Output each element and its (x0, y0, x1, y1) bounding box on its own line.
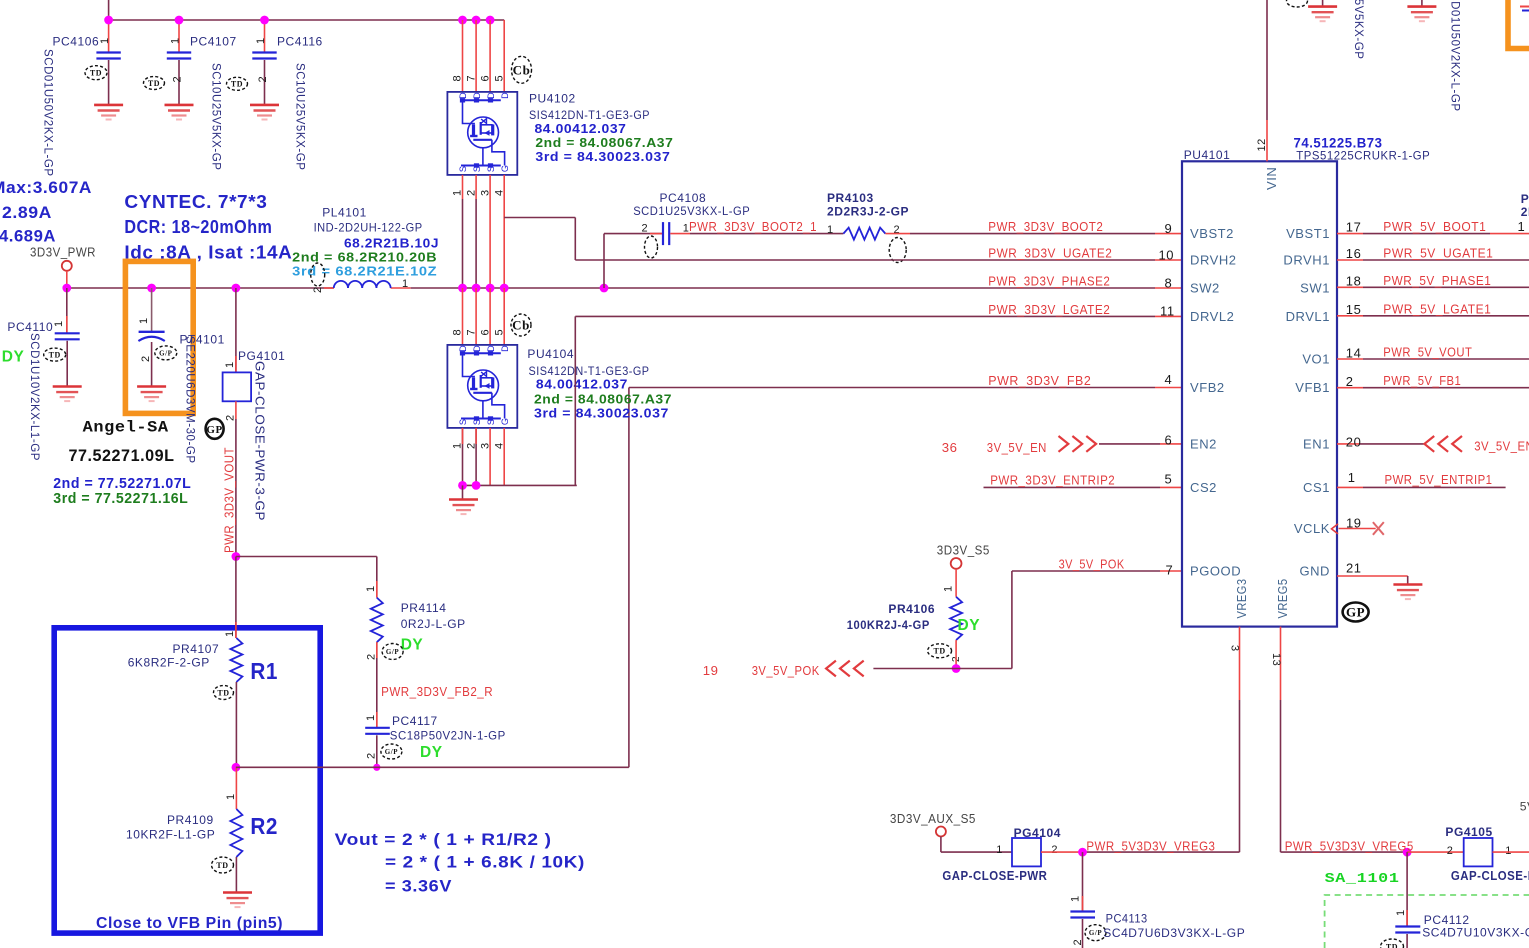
pin 10 (1159, 248, 1175, 263)
svg-text:1: 1 (225, 793, 237, 800)
stamp Cb PU4104 (511, 314, 531, 336)
label PC4108 part (633, 204, 750, 218)
svg-text:2: 2 (172, 76, 184, 83)
pin name DRVH1 (1283, 253, 1330, 268)
label GAP-CLOSE-PWR (942, 869, 1047, 883)
svg-text:DY: DY (401, 636, 424, 653)
wire ENTRIP2 (984, 486, 1183, 488)
svg-text:SC18P50V2JN-1-GP: SC18P50V2JN-1-GP (390, 729, 506, 743)
svg-text:PC4117: PC4117 (392, 714, 438, 728)
pin 2 PC4113 (1072, 939, 1084, 946)
wire PU4102 drain pins to rail (463, 20, 505, 92)
label PG4101 part (253, 361, 267, 521)
svg-text:84.00412.037: 84.00412.037 (536, 377, 628, 392)
label PR4106 (888, 602, 935, 616)
pin 2 PC4107 (172, 76, 184, 83)
pin numbers 1234 PU4102 (452, 189, 506, 196)
svg-text:SC4D7U6D3V3KX-L-GP: SC4D7U6D3V3KX-L-GP (1103, 926, 1245, 940)
pin numbers 1234 PU4104 (452, 442, 506, 449)
svg-text:VREG3: VREG3 (1234, 579, 1249, 619)
svg-text:20: 20 (1346, 434, 1362, 449)
svg-text:10: 10 (1159, 248, 1175, 263)
svg-text:= 3.36V: = 3.36V (385, 878, 452, 896)
wire PC4108 to PR4103 (670, 233, 843, 235)
svg-text:GAP-CLOSE-PWR: GAP-CLOSE-PWR (1451, 869, 1529, 883)
svg-text:10KR2F-L1-GP: 10KR2F-L1-GP (126, 828, 215, 842)
wire EN2 (1099, 443, 1182, 445)
stamp PL4101 (311, 263, 325, 286)
svg-text:PU4102: PU4102 (529, 92, 576, 106)
svg-text:D: D (500, 92, 510, 99)
stamp PC4116 (227, 77, 248, 90)
net label PWR_3D3V_FB2 (988, 373, 1091, 388)
resistor PR4107 R1 (230, 638, 242, 682)
svg-text:D: D (458, 92, 468, 99)
svg-text:2: 2 (312, 286, 324, 293)
ground IC GND (1393, 585, 1422, 600)
net label PWR_5V3D3V_VREG5 (1285, 838, 1414, 853)
svg-text:SC10U25V5KX-GP: SC10U25V5KX-GP (1352, 0, 1364, 59)
svg-text:D: D (486, 92, 496, 99)
svg-text:2: 2 (366, 653, 378, 660)
pin 1 PG4104 (996, 844, 1003, 856)
stamp R2 (212, 857, 234, 873)
label PR4107 part (128, 655, 210, 669)
pin name EN2 (1190, 437, 1217, 452)
pin 2 PC4116 (257, 76, 269, 83)
wire PT4101 to ground (151, 342, 153, 387)
label PT4101 part (184, 336, 196, 464)
label PR4103 part (827, 205, 909, 219)
wire PR4103 to IC (885, 233, 1182, 235)
capacitor fragment right edge (1520, 7, 1529, 11)
wire PU4104 gnd stem (462, 485, 464, 499)
pin 8 (1165, 275, 1173, 290)
svg-text:DY: DY (2, 349, 25, 366)
svg-text:2.89A: 2.89A (2, 203, 52, 222)
svg-text:3D3V_PWR: 3D3V_PWR (30, 244, 96, 259)
label PR4109 (167, 813, 214, 827)
junction dot FB node (232, 763, 241, 772)
svg-text:3V_5V_EN: 3V_5V_EN (987, 440, 1047, 455)
svg-text:1: 1 (996, 844, 1003, 856)
port 3D3V_AUX_S5 (936, 827, 1012, 853)
wire PGOOD (1012, 571, 1182, 669)
text DY PR4106 (958, 617, 981, 634)
wire LGATE2 (575, 316, 1182, 485)
svg-text:12: 12 (1256, 138, 1268, 151)
capacitor PC4106 (96, 53, 120, 59)
svg-text:VBST1: VBST1 (1286, 226, 1330, 241)
junction dots top rail (104, 16, 494, 25)
svg-text:EN2: EN2 (1190, 437, 1217, 452)
text Close to VFB (96, 915, 283, 932)
net label 3V_5V_POK right (1059, 557, 1125, 572)
svg-text:5V: 5V (1520, 800, 1529, 814)
pin name VFB1 (1295, 380, 1330, 395)
label PC4107 (190, 34, 237, 48)
pin 1 PG4105 (1505, 845, 1512, 857)
svg-text:1: 1 (1348, 470, 1356, 485)
wire PU4102 S pins down (463, 175, 491, 288)
pin 1 PC4106 (99, 37, 111, 44)
boundary green dashed SA_1101 (1325, 895, 1529, 948)
pin name VREG5 (1275, 579, 1290, 619)
svg-text:1: 1 (224, 361, 236, 368)
svg-text:G/P: G/P (159, 349, 172, 357)
capacitor PC4112 (1395, 927, 1420, 933)
svg-text:PWR_5V_FB1: PWR_5V_FB1 (1383, 373, 1461, 388)
svg-text:IND-2D2UH-122-GP: IND-2D2UH-122-GP (314, 221, 423, 235)
stamp GP IC (1343, 603, 1369, 622)
resistor PR4103 (843, 228, 885, 240)
svg-text:9: 9 (1165, 221, 1173, 236)
text Vout line2 (385, 854, 585, 872)
text Angel-SA (83, 419, 169, 437)
svg-text:PU4101: PU4101 (1184, 148, 1231, 162)
pin name CS2 (1190, 480, 1217, 495)
stamp PR4114 (382, 644, 403, 660)
value 74.51225.B73 (1294, 135, 1383, 151)
value PU4104 (536, 377, 628, 392)
svg-text:G/P: G/P (386, 648, 399, 656)
wire top rail 3D3V (109, 19, 505, 21)
pin 6 (1165, 432, 1173, 447)
label PR4107 (173, 642, 220, 656)
svg-text:8: 8 (452, 75, 464, 82)
wire top feed vertical (108, 0, 110, 20)
highlight blue box R1R2 (54, 628, 320, 933)
wire VREG3 pin3 (1083, 627, 1240, 853)
wire PC4117 to FB wire (376, 735, 378, 767)
text Vout line1 (335, 831, 552, 849)
svg-text:2D2R3J-2-GP: 2D2R3J-2-GP (827, 205, 909, 219)
label PU4102 part (529, 108, 650, 122)
svg-text:100KR2J-4-GP: 100KR2J-4-GP (847, 618, 930, 632)
svg-text:PWR_5V3D3V_VREG5: PWR_5V3D3V_VREG5 (1285, 838, 1414, 853)
svg-text:DRVH2: DRVH2 (1190, 253, 1237, 268)
svg-text:PWR_3D3V_PHASE2: PWR_3D3V_PHASE2 (988, 273, 1110, 288)
pin 11 (1160, 304, 1175, 319)
svg-text:DCR: 18~20mOhm: DCR: 18~20mOhm (124, 216, 272, 237)
wire UGATE2 (575, 259, 1182, 261)
label PR4109 part (126, 828, 215, 842)
pin 2 PG4105 (1447, 845, 1454, 857)
svg-text:PWR_3D3V_FB2_R: PWR_3D3V_FB2_R (381, 684, 493, 699)
svg-text:R2: R2 (250, 813, 278, 839)
pin 4 (1165, 372, 1173, 387)
svg-text:GAP-CLOSE-PWR: GAP-CLOSE-PWR (942, 869, 1047, 883)
wire PC4110 to ground (66, 341, 68, 387)
svg-text:GP: GP (1346, 605, 1365, 620)
capacitor PC4116 pin1 stub (264, 20, 266, 53)
text 3rd 77 (53, 491, 188, 507)
svg-text:CS2: CS2 (1190, 480, 1217, 495)
value PU4104 2nd (534, 391, 672, 406)
svg-text:84.00412.037: 84.00412.037 (535, 121, 627, 136)
svg-text:7: 7 (466, 329, 478, 336)
pin 2 PR4103 (894, 224, 901, 236)
svg-text:R1: R1 (250, 658, 278, 684)
svg-text:1: 1 (943, 585, 955, 592)
label PC4112 part (1422, 926, 1529, 940)
stamp PC4113 (1085, 925, 1106, 941)
wire R2 to ground (235, 857, 237, 893)
label 3D3V_S5 (937, 542, 990, 557)
pin 1 PT4101 (138, 317, 150, 324)
stamp GP PG4101 (206, 419, 224, 439)
svg-text:GAP-CLOSE-PWR-3-GP: GAP-CLOSE-PWR-3-GP (253, 361, 267, 521)
svg-text:3rd = 84.30023.037: 3rd = 84.30023.037 (534, 405, 669, 420)
svg-text:68.2R21B.10J: 68.2R21B.10J (344, 235, 439, 250)
net label 3V_5V_POK left (752, 663, 820, 678)
svg-text:SE220U6D3VM-30-GP: SE220U6D3VM-30-GP (184, 336, 196, 464)
value PL4101 3rd (292, 264, 437, 279)
svg-text:2nd = 84.08067.A37: 2nd = 84.08067.A37 (534, 391, 672, 406)
svg-text:PGOOD: PGOOD (1190, 564, 1241, 579)
pin 16 (1346, 246, 1362, 261)
value PL4101 2nd (292, 249, 437, 264)
svg-text:G/P: G/P (385, 748, 398, 756)
text 2.89A (2, 203, 52, 222)
net label PWR_5V_UGATE1 (1383, 246, 1493, 261)
pin 18 (1346, 274, 1362, 289)
pin 1 PR4103 (827, 224, 834, 236)
pin 1 PC4110 (53, 320, 65, 327)
stamp PC4117 (381, 744, 402, 759)
svg-text:VFB2: VFB2 (1190, 380, 1225, 395)
stamp top cut (1287, 0, 1308, 7)
stamp PC4112 (1381, 939, 1404, 948)
svg-text:SC10U25V5KX-GP: SC10U25V5KX-GP (210, 63, 222, 170)
wire PC4113 down (1082, 919, 1084, 948)
label PC4113 (1106, 911, 1148, 925)
capacitor PC4107 pin1 stub (178, 20, 180, 53)
svg-text:PC4113: PC4113 (1106, 911, 1148, 925)
svg-text:PC4107: PC4107 (190, 34, 237, 48)
pin 3 (1229, 645, 1241, 652)
pin 1 PR4114 (365, 585, 377, 592)
label PG4101 (238, 349, 285, 363)
svg-text:SC10U25V5KX-GP: SC10U25V5KX-GP (294, 63, 306, 170)
net label PWR_3D3V_UGATE2 (988, 246, 1112, 261)
svg-text:2: 2 (140, 355, 152, 362)
ground under PC4107 (165, 105, 194, 120)
label PG4104 (1014, 826, 1061, 840)
svg-text:PWR_3D3V_VOUT: PWR_3D3V_VOUT (222, 447, 237, 553)
pin 1 PC4113 (1069, 895, 1081, 902)
label PC4116 part (294, 63, 306, 170)
svg-text:PR4106: PR4106 (888, 602, 935, 616)
svg-text:7: 7 (466, 75, 478, 82)
svg-text:2nd = 68.2R210.20B: 2nd = 68.2R210.20B (292, 249, 437, 264)
resistor PR4114 (371, 598, 383, 643)
pin 1 right CS (1348, 470, 1356, 485)
highlight orange fragment (1508, 0, 1529, 49)
wire PG4101 pin2 down (235, 401, 237, 556)
label PR4114 (401, 601, 447, 615)
svg-text:1: 1 (99, 37, 111, 44)
pin 2 PR4114 (366, 653, 378, 660)
svg-text:PWR_5V_ENTRIP1: PWR_5V_ENTRIP1 (1385, 472, 1493, 487)
wire UGATE1 (1337, 259, 1529, 261)
pin 1 PC4108 (683, 223, 690, 235)
svg-text:CYNTEC. 7*7*3: CYNTEC. 7*7*3 (124, 191, 267, 212)
svg-text:PU4104: PU4104 (527, 347, 574, 361)
inductor PL4101 (334, 281, 391, 288)
svg-text:1: 1 (169, 37, 181, 44)
label PU4102 (529, 92, 576, 106)
label PC4110 part (28, 333, 40, 461)
wire PHASE1 (1337, 286, 1529, 288)
svg-text:D: D (500, 345, 510, 352)
text R1 (250, 658, 278, 684)
svg-text:3: 3 (1229, 645, 1241, 652)
svg-text:PC4116: PC4116 (277, 34, 323, 48)
pin 1 right edge (1518, 219, 1526, 234)
svg-text:PWR_3D3V_LGATE2: PWR_3D3V_LGATE2 (988, 302, 1110, 317)
text 19 (703, 663, 719, 678)
text Max current (0, 178, 92, 197)
svg-text:TD: TD (49, 350, 61, 359)
resistor PR4109 R2 (230, 809, 242, 857)
svg-text:1: 1 (365, 585, 377, 592)
net label PWR_3D3V_LGATE2 (988, 302, 1110, 317)
wire FB node to R2 (235, 767, 237, 809)
wire PU4102 gate pin4 (504, 175, 575, 288)
capacitor PC4117 (365, 728, 390, 734)
wire FB horizontal (236, 766, 629, 768)
capacitor PC4116 (252, 53, 276, 59)
gap component PG4105 (1464, 838, 1493, 866)
svg-text:PWR_3D3V_ENTRIP2: PWR_3D3V_ENTRIP2 (990, 473, 1115, 488)
label PC4116 (277, 34, 323, 48)
svg-text:D: D (472, 345, 482, 352)
pin 2 right (1346, 374, 1354, 389)
wire POK horizontal (873, 668, 1012, 670)
wire PG4101 pin1 (235, 288, 237, 372)
pin 12 (1256, 138, 1268, 151)
svg-text:3rd = 77.52271.16L: 3rd = 77.52271.16L (53, 491, 188, 507)
text 5V cut (1520, 800, 1529, 814)
svg-text:1: 1 (138, 317, 150, 324)
ground top right 1 (1308, 0, 1337, 21)
label PL4101 part (314, 221, 423, 235)
pin name VCLK (1294, 521, 1330, 536)
svg-text:PC4110: PC4110 (7, 320, 53, 334)
pin 20 (1346, 434, 1362, 449)
svg-text:PC41: PC41 (1521, 192, 1529, 206)
svg-text:6K8R2F-2-GP: 6K8R2F-2-GP (128, 655, 210, 669)
junction dot VREG5 (1403, 848, 1412, 857)
label PR4106 part (847, 618, 930, 632)
svg-text:2: 2 (642, 223, 649, 235)
offpage arrows EN1 (1424, 436, 1462, 452)
label cut P (1521, 192, 1529, 206)
wire EN1 (1337, 443, 1424, 445)
transistor PU4102 (447, 92, 517, 175)
svg-text:6: 6 (1165, 432, 1173, 447)
svg-text:DY: DY (420, 744, 443, 761)
svg-text:11: 11 (1160, 304, 1175, 319)
pin name VFB2 (1190, 380, 1225, 395)
svg-text:D: D (486, 345, 496, 352)
label PC4112 (1424, 913, 1470, 927)
svg-text:7: 7 (1166, 563, 1174, 578)
offpage arrows POK (826, 661, 864, 677)
wire VOUT node to PR4114 (236, 557, 377, 598)
label PC4108 (660, 191, 707, 205)
text DY PC4110 (2, 349, 25, 366)
svg-text:2nd = 77.52271.07L: 2nd = 77.52271.07L (53, 476, 191, 492)
net label PWR_3D3V_VOUT (222, 447, 237, 553)
svg-text:SC4D7U10V3KX-GP: SC4D7U10V3KX-GP (1422, 926, 1529, 940)
capacitor PT4101 stub (151, 288, 153, 332)
pin name DRVH2 (1190, 253, 1237, 268)
wire PR4106 to POK (955, 640, 957, 668)
svg-text:PR4107: PR4107 (173, 642, 220, 656)
label GAP-CLOSE right (1451, 869, 1529, 883)
pin 1 PL4101 (402, 278, 409, 290)
svg-text:Cb: Cb (512, 318, 530, 333)
label PC4107 part (210, 63, 222, 170)
svg-text:VREG5: VREG5 (1275, 579, 1290, 619)
svg-text:PC4106: PC4106 (53, 34, 100, 48)
svg-text:D: D (458, 345, 468, 352)
text Vout line3 (385, 878, 452, 896)
svg-text:21: 21 (1346, 560, 1362, 575)
pin numbers 8765 PU4104 (452, 329, 506, 336)
value PU4104 3rd (534, 405, 669, 420)
net label PWR_3D3V_ENTRIP2 (990, 473, 1115, 488)
svg-text:Close to VFB Pin (pin5): Close to VFB Pin (pin5) (96, 915, 283, 932)
svg-text:15: 15 (1346, 302, 1362, 317)
svg-text:5: 5 (1165, 472, 1173, 487)
svg-text:0R2J-L-GP: 0R2J-L-GP (401, 617, 466, 631)
stamp PC4110 (44, 348, 66, 361)
pin name GND (1299, 564, 1330, 579)
wire PC4106 to ground (108, 60, 110, 105)
capacitor PC4112 stub (1406, 852, 1408, 926)
value PL4101 (344, 235, 439, 250)
svg-text:3V_5V_EN: 3V_5V_EN (1474, 439, 1529, 454)
svg-text:PC4108: PC4108 (660, 191, 707, 205)
junction dot POK (952, 664, 961, 673)
stamp R1 (214, 686, 234, 700)
wire PG4105 right (1493, 851, 1529, 853)
gap component PG4104 (1012, 838, 1041, 866)
svg-text:3V_5V_POK: 3V_5V_POK (1059, 557, 1125, 572)
svg-text:SCD1U25V3KX-L-GP: SCD1U25V3KX-L-GP (633, 204, 750, 218)
svg-text:PG4105: PG4105 (1445, 825, 1492, 839)
svg-text:77.52271.09L: 77.52271.09L (69, 447, 175, 465)
svg-text:GND: GND (1299, 564, 1330, 579)
svg-text:3D3V_S5: 3D3V_S5 (937, 542, 990, 557)
text R2 (250, 813, 278, 839)
svg-text:S: S (458, 166, 468, 173)
capacitor PC4113 (1070, 912, 1095, 918)
svg-text:TD: TD (90, 69, 102, 78)
text 36 (942, 440, 958, 455)
svg-text:1: 1 (53, 320, 65, 327)
wire FB2 (629, 387, 1182, 389)
svg-text:TPS51225CRUKR-1-GP: TPS51225CRUKR-1-GP (1296, 149, 1430, 163)
wire PU4104 ground tie (463, 484, 577, 486)
stamp PR4103 (889, 238, 906, 263)
svg-text:DRVH1: DRVH1 (1283, 253, 1330, 268)
text DCR (124, 216, 272, 237)
label 3D3V_PWR (30, 244, 96, 259)
